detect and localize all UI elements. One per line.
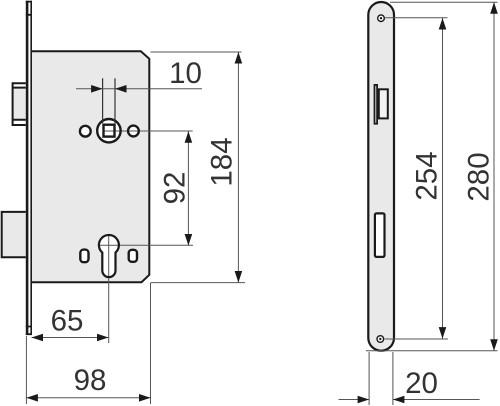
- dim 20 line: [339, 399, 480, 401]
- case top extension line: [151, 51, 242, 53]
- svg-text:184: 184: [206, 137, 239, 186]
- lock case body (side view): [31, 51, 149, 282]
- fixing hole right: [129, 250, 137, 262]
- spindle follower circle: [97, 119, 120, 142]
- dim 98 extension lines: [25, 336, 27, 404]
- dim 10 extension lines: [103, 78, 115, 123]
- dim 92 line: [187, 131, 189, 245]
- svg-text:10: 10: [169, 57, 202, 90]
- faceplate front view: [368, 2, 394, 351]
- svg-text:254: 254: [411, 151, 444, 200]
- cylinder row leader line: [99, 244, 193, 246]
- svg-text:65: 65: [51, 305, 84, 338]
- deadbolt (side view): [2, 212, 27, 257]
- faceplate strip (side view): [26, 1, 32, 335]
- svg-text:20: 20: [405, 367, 438, 400]
- dim 10 arrows: [91, 85, 103, 93]
- bottom screw hole: [377, 336, 384, 343]
- spindle square hole: [104, 125, 115, 137]
- svg-text:92: 92: [159, 172, 192, 205]
- dim 254 line: [442, 18, 444, 339]
- svg-text:98: 98: [74, 364, 107, 397]
- dim 20 extension lines: [369, 352, 393, 405]
- dim 98 line: [26, 397, 150, 399]
- euro cylinder hole outline: [99, 235, 119, 277]
- screw post hole right: [128, 126, 139, 137]
- latch head front: [379, 89, 388, 118]
- fixing hole left: [80, 250, 88, 263]
- spindle row leader line: [104, 130, 193, 132]
- plate top extension line: [390, 1, 498, 3]
- deadbolt slot front: [375, 213, 385, 257]
- case bottom extension line: [151, 282, 246, 284]
- bottom screw leader: [385, 338, 449, 340]
- dim 65 line: [32, 337, 109, 339]
- latch bolt (side view): [12, 82, 27, 126]
- euro cylinder hole white fill: [99, 235, 119, 277]
- latch opening flange: [375, 85, 378, 124]
- hole white fills: [97, 118, 122, 143]
- dim 280 line: [493, 2, 495, 351]
- dim 184 line: [237, 52, 239, 283]
- cylinder centerline (65 extension): [108, 234, 110, 343]
- top screw hole: [378, 15, 385, 22]
- plate bottom extension line: [366, 350, 498, 352]
- dim 10 line: [76, 88, 202, 90]
- top screw leader: [385, 17, 448, 19]
- screw post hole left: [80, 126, 91, 137]
- svg-text:280: 280: [463, 152, 496, 201]
